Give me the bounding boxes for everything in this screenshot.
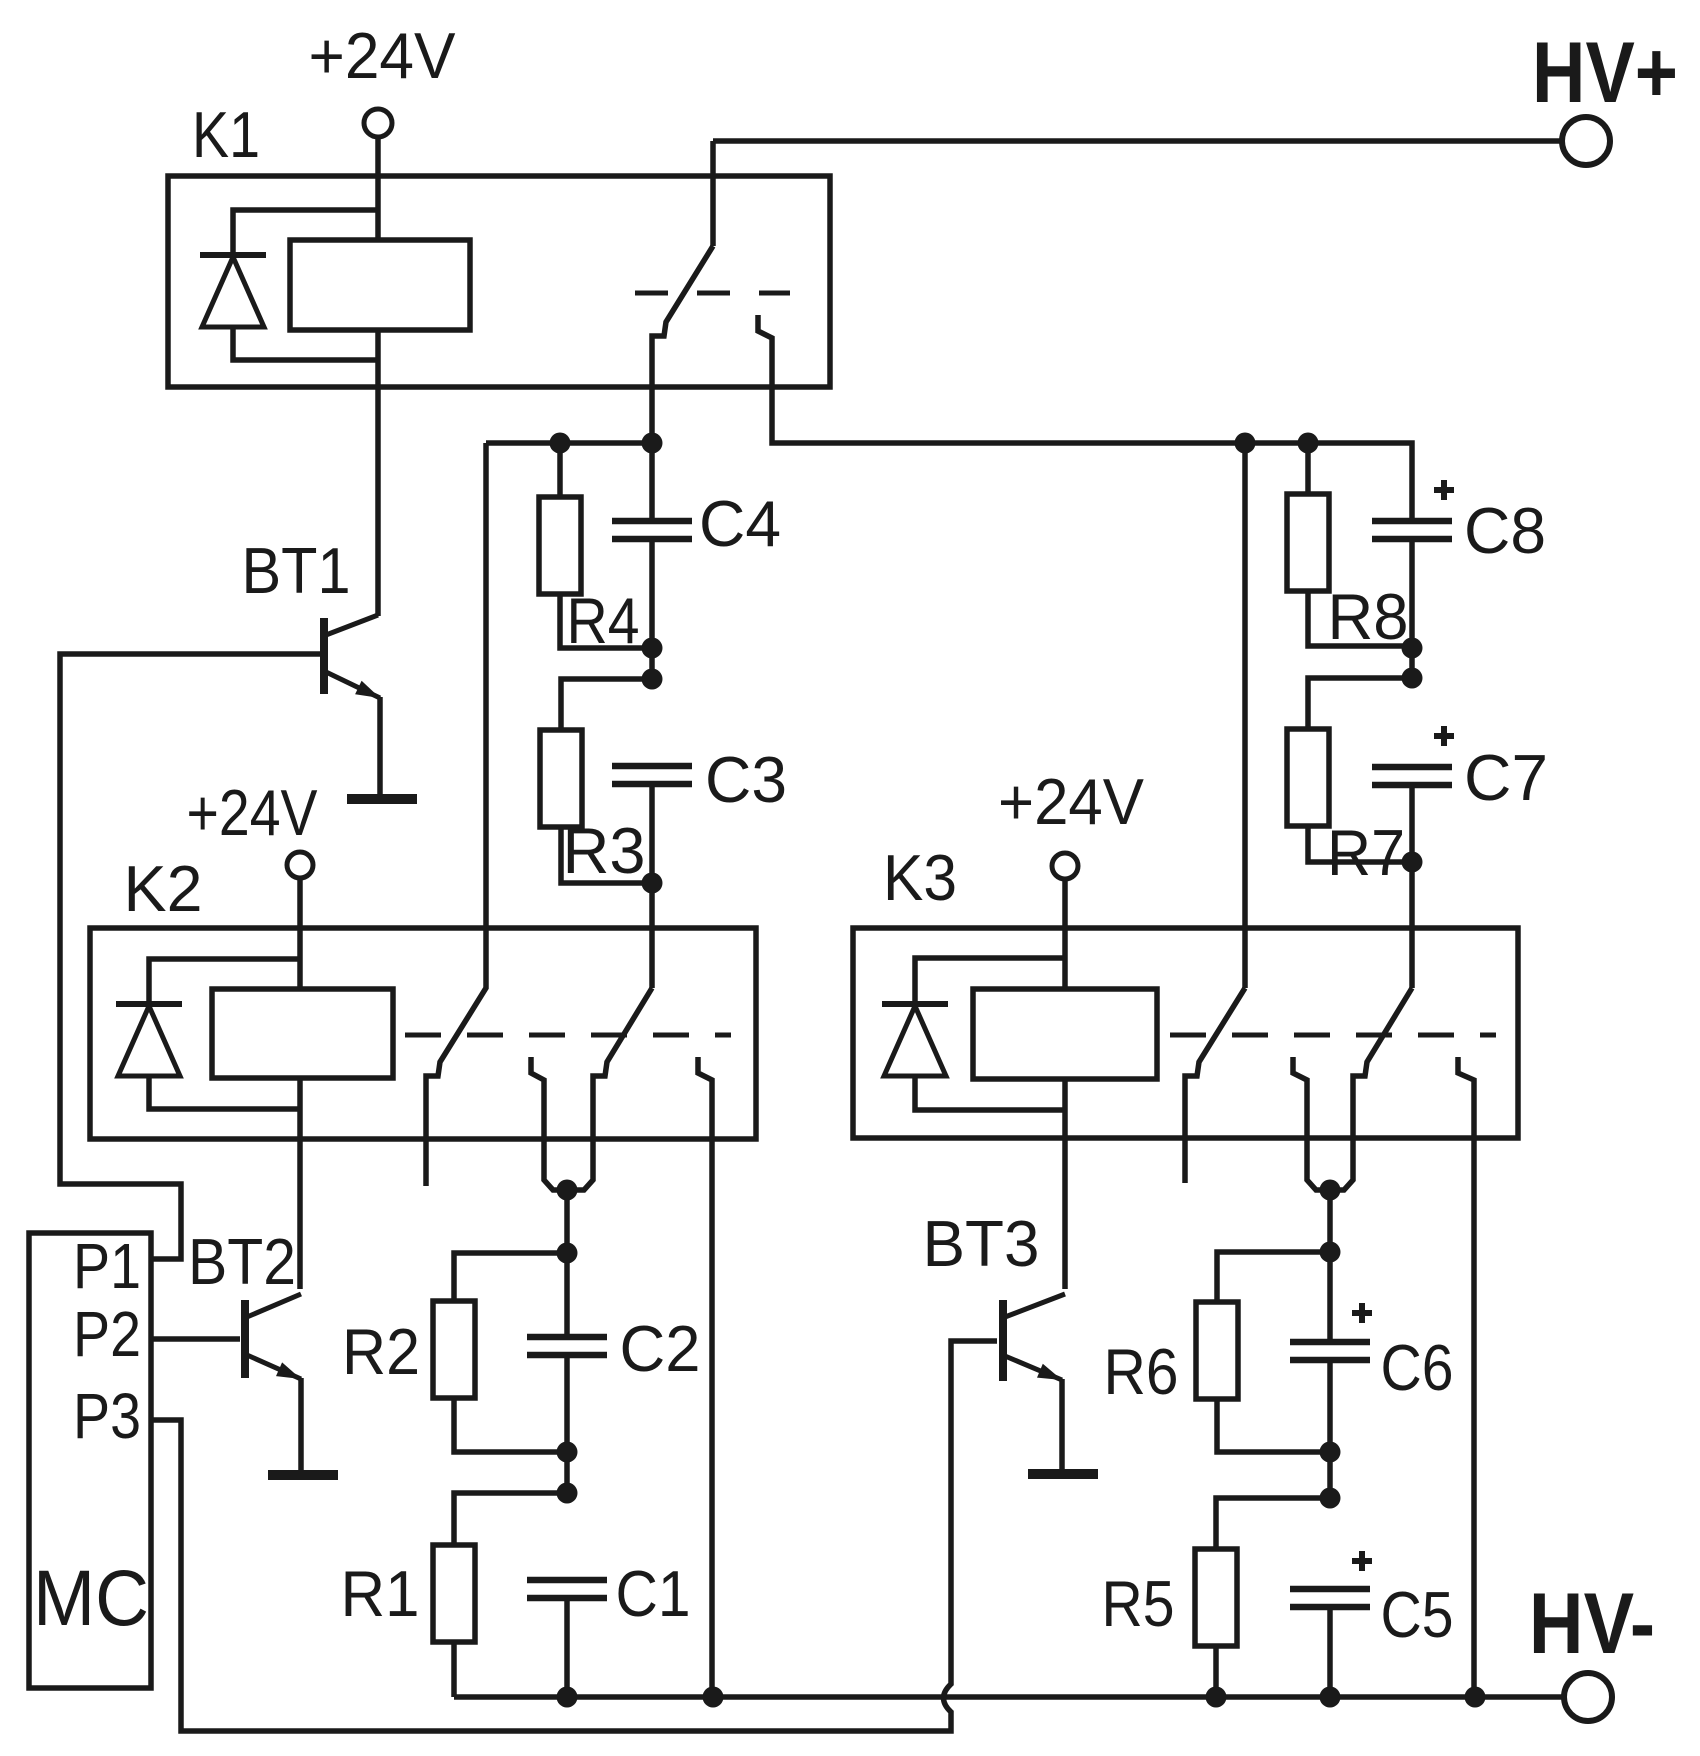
svg-text:C3: C3 xyxy=(705,743,787,816)
svg-text:K2: K2 xyxy=(124,852,203,925)
svg-text:HV-: HV- xyxy=(1529,1577,1655,1673)
svg-text:R3: R3 xyxy=(563,814,646,887)
svg-text:R1: R1 xyxy=(341,1557,420,1630)
svg-text:R7: R7 xyxy=(1327,816,1405,889)
svg-text:C2: C2 xyxy=(620,1312,701,1385)
svg-text:MC: MC xyxy=(33,1553,149,1642)
svg-text:HV+: HV+ xyxy=(1532,24,1678,121)
svg-text:C6: C6 xyxy=(1381,1331,1454,1404)
svg-text:+24V: +24V xyxy=(998,765,1145,838)
svg-text:BT2: BT2 xyxy=(188,1225,296,1298)
svg-text:K3: K3 xyxy=(883,841,957,914)
svg-text:C5: C5 xyxy=(1381,1578,1454,1651)
svg-text:R8: R8 xyxy=(1328,580,1409,653)
svg-text:P2: P2 xyxy=(73,1298,141,1370)
svg-text:R6: R6 xyxy=(1104,1335,1179,1408)
svg-text:+24V: +24V xyxy=(309,19,457,92)
svg-text:P1: P1 xyxy=(73,1230,141,1302)
svg-text:C8: C8 xyxy=(1464,494,1546,567)
svg-text:+24V: +24V xyxy=(187,776,319,849)
svg-text:C1: C1 xyxy=(616,1557,691,1630)
svg-text:C4: C4 xyxy=(699,487,781,560)
svg-text:R5: R5 xyxy=(1102,1567,1175,1640)
svg-text:C7: C7 xyxy=(1464,741,1548,814)
svg-text:P3: P3 xyxy=(73,1380,141,1452)
svg-text:R2: R2 xyxy=(342,1315,420,1388)
svg-text:R4: R4 xyxy=(567,584,640,657)
svg-text:K1: K1 xyxy=(192,98,260,171)
svg-text:BT1: BT1 xyxy=(242,534,351,607)
svg-text:BT3: BT3 xyxy=(923,1207,1040,1280)
